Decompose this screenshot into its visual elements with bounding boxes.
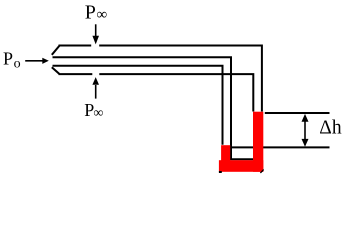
- svg-text:∞: ∞: [97, 7, 108, 23]
- svg-text:∞: ∞: [93, 106, 103, 121]
- svg-text:o: o: [14, 57, 21, 72]
- svg-text:Δh: Δh: [319, 117, 342, 138]
- svg-text:P: P: [3, 49, 13, 69]
- svg-text:P: P: [85, 1, 96, 23]
